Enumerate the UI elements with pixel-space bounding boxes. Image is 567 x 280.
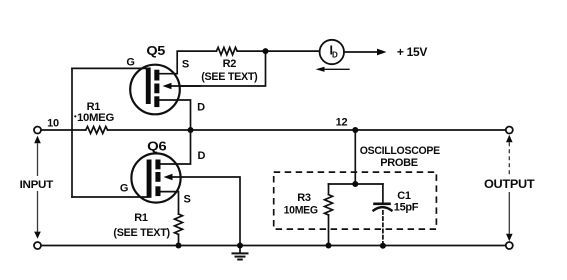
svg-text:S: S bbox=[182, 58, 189, 70]
svg-text:S: S bbox=[183, 193, 190, 205]
svg-text:D: D bbox=[332, 51, 338, 60]
svg-text:INPUT: INPUT bbox=[20, 179, 54, 191]
svg-text:(SEE TEXT): (SEE TEXT) bbox=[201, 71, 258, 83]
svg-text:R3: R3 bbox=[297, 192, 311, 204]
svg-text:(SEE TEXT): (SEE TEXT) bbox=[113, 227, 170, 239]
svg-text:12: 12 bbox=[336, 117, 348, 129]
svg-text:G: G bbox=[120, 183, 128, 195]
svg-text:10: 10 bbox=[47, 117, 59, 129]
svg-text:Q5: Q5 bbox=[146, 44, 165, 58]
svg-text:R2: R2 bbox=[223, 58, 237, 70]
svg-text:C1: C1 bbox=[397, 190, 411, 202]
svg-text:OUTPUT: OUTPUT bbox=[484, 177, 535, 191]
svg-text:D: D bbox=[197, 150, 205, 162]
svg-text:Q6: Q6 bbox=[147, 140, 167, 154]
svg-text:10MEG: 10MEG bbox=[77, 112, 114, 124]
svg-text:R1: R1 bbox=[134, 212, 148, 224]
svg-text:G: G bbox=[126, 57, 134, 69]
svg-text:10MEG: 10MEG bbox=[284, 205, 318, 217]
svg-text:+ 15V: + 15V bbox=[397, 45, 427, 59]
svg-text:OSCILLOSCOPE: OSCILLOSCOPE bbox=[360, 145, 440, 157]
svg-text:15pF: 15pF bbox=[394, 201, 419, 213]
svg-text:D: D bbox=[197, 102, 205, 114]
svg-text:PROBE: PROBE bbox=[380, 157, 418, 169]
